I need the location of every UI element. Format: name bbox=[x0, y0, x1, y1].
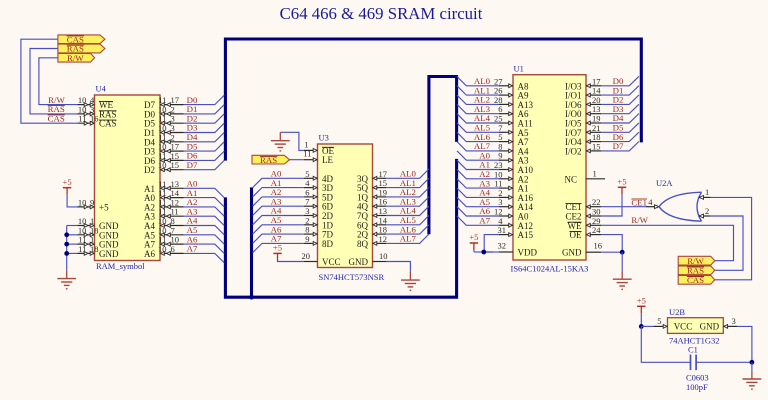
svg-text:16: 16 bbox=[594, 241, 603, 251]
svg-text:U3: U3 bbox=[319, 133, 329, 143]
svg-text:8D: 8D bbox=[322, 239, 334, 249]
svg-text:R/W: R/W bbox=[631, 215, 648, 225]
svg-text:GND: GND bbox=[562, 248, 582, 258]
svg-text:1: 1 bbox=[705, 187, 709, 197]
svg-text:D7: D7 bbox=[187, 160, 198, 170]
svg-text:C0603: C0603 bbox=[686, 373, 709, 383]
svg-text:24: 24 bbox=[592, 225, 601, 235]
svg-text:I/O2: I/O2 bbox=[565, 146, 582, 156]
svg-text:31: 31 bbox=[498, 225, 507, 235]
svg-text:+5: +5 bbox=[637, 296, 646, 306]
svg-text:A6: A6 bbox=[144, 249, 155, 259]
svg-text:+5: +5 bbox=[469, 232, 478, 242]
svg-text:R/W: R/W bbox=[687, 256, 704, 266]
svg-text:VCC: VCC bbox=[674, 322, 693, 332]
svg-text:U1: U1 bbox=[514, 64, 524, 74]
svg-text:D2: D2 bbox=[144, 165, 155, 175]
svg-text:16: 16 bbox=[90, 114, 99, 124]
svg-text:1: 1 bbox=[593, 168, 597, 178]
svg-text:11: 11 bbox=[78, 114, 86, 124]
svg-text:GND: GND bbox=[349, 257, 369, 267]
svg-text:6: 6 bbox=[171, 244, 175, 254]
svg-text:VCC: VCC bbox=[322, 257, 341, 267]
svg-text:LE: LE bbox=[322, 155, 333, 165]
svg-text:10: 10 bbox=[158, 160, 167, 170]
svg-text:15: 15 bbox=[592, 141, 601, 151]
svg-text:9: 9 bbox=[90, 197, 94, 207]
svg-text:9: 9 bbox=[305, 234, 309, 244]
svg-text:10: 10 bbox=[78, 197, 87, 207]
svg-text:C1: C1 bbox=[688, 345, 698, 355]
svg-text:C64 466 & 469 SRAM circuit: C64 466 & 469 SRAM circuit bbox=[280, 4, 483, 23]
svg-text:18: 18 bbox=[90, 244, 99, 254]
svg-text:32: 32 bbox=[498, 241, 507, 251]
svg-text:A7: A7 bbox=[187, 244, 198, 254]
svg-text:20: 20 bbox=[302, 251, 311, 261]
svg-text:U2B: U2B bbox=[669, 307, 685, 317]
svg-text:A15: A15 bbox=[518, 230, 534, 240]
svg-text:+5: +5 bbox=[617, 177, 626, 187]
svg-text:U2A: U2A bbox=[656, 178, 673, 188]
svg-text:8Q: 8Q bbox=[357, 239, 369, 249]
svg-text:RAM_symbol: RAM_symbol bbox=[96, 261, 145, 271]
svg-text:AL7: AL7 bbox=[400, 234, 417, 244]
svg-text:GND: GND bbox=[700, 322, 720, 332]
svg-text:NC: NC bbox=[564, 174, 577, 184]
svg-text:+5: +5 bbox=[63, 177, 72, 187]
svg-text:3: 3 bbox=[732, 316, 736, 326]
svg-text:15: 15 bbox=[171, 160, 180, 170]
svg-text:U4: U4 bbox=[96, 84, 107, 94]
svg-text:SN74HCT573NSR: SN74HCT573NSR bbox=[319, 272, 385, 282]
svg-text:11: 11 bbox=[303, 149, 311, 159]
svg-text:VDD: VDD bbox=[518, 248, 538, 258]
svg-text:5: 5 bbox=[657, 316, 661, 326]
svg-text:100pF: 100pF bbox=[686, 382, 708, 392]
svg-text:11: 11 bbox=[78, 244, 86, 254]
svg-text:GND: GND bbox=[99, 249, 119, 259]
svg-text:2: 2 bbox=[705, 206, 709, 216]
svg-text:+5: +5 bbox=[99, 202, 109, 212]
svg-text:+5: +5 bbox=[273, 243, 282, 253]
svg-text:IS64C1024AL-15KA3: IS64C1024AL-15KA3 bbox=[511, 264, 589, 274]
svg-text:10: 10 bbox=[158, 244, 167, 254]
svg-text:R/W: R/W bbox=[67, 53, 84, 63]
svg-text:A7: A7 bbox=[479, 216, 490, 226]
svg-text:D7: D7 bbox=[613, 141, 624, 151]
svg-text:10: 10 bbox=[379, 251, 388, 261]
svg-text:12: 12 bbox=[379, 234, 388, 244]
